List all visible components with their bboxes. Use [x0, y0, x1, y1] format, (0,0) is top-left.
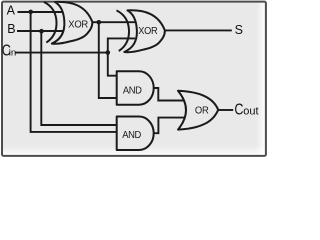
svg-text:C: C — [234, 101, 243, 119]
svg-text:out: out — [243, 106, 258, 118]
svg-text:B: B — [7, 22, 15, 36]
svg-text:S: S — [235, 23, 243, 37]
svg-text:XOR: XOR — [138, 26, 157, 38]
svg-text:A: A — [7, 4, 16, 18]
svg-text:XOR: XOR — [68, 19, 88, 31]
svg-text:OR: OR — [195, 105, 209, 117]
svg-text:in: in — [9, 48, 16, 59]
svg-text:AND: AND — [122, 130, 141, 141]
svg-text:AND: AND — [123, 85, 142, 96]
